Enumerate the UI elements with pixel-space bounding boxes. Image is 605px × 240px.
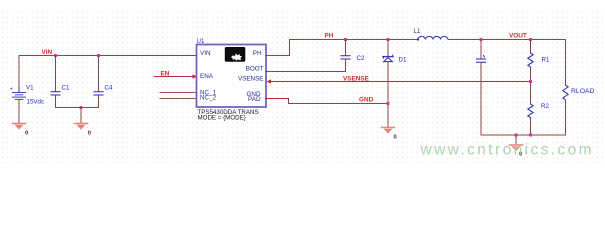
svg-text:VSENSE: VSENSE (343, 76, 370, 83)
label net VOUT (509, 33, 527, 40)
svg-text:www.cntronics.com: www.cntronics.com (420, 142, 594, 159)
capacitor C2 (341, 56, 350, 59)
svg-text:0: 0 (394, 135, 397, 141)
svg-text:L1: L1 (414, 28, 421, 35)
wire C2 lower lead (345, 60, 347, 72)
wire ground drop (input caps) (80, 108, 82, 124)
wire R2 lower lead (530, 118, 532, 136)
svg-text:VOUT: VOUT (509, 33, 527, 40)
ground 0 under V1 (13, 124, 26, 130)
node VIN junction C4 (97, 54, 100, 57)
wire PH top rail (290, 39, 419, 41)
pin label PH (253, 50, 262, 57)
pin label VSENSE (238, 76, 264, 83)
label L1 (414, 28, 421, 35)
wire GND step down (288, 99, 290, 104)
capacitor C3 (477, 56, 486, 63)
wire EN (154, 76, 194, 78)
label 0 (input caps ground) (88, 131, 91, 137)
node bottom rail ground junction (514, 134, 517, 137)
ground 0 (output) (510, 145, 523, 151)
svg-text:NC_2: NC_2 (200, 95, 217, 102)
wire output ground drop (515, 135, 517, 145)
wire R1 upper lead (530, 40, 532, 54)
wire VIN rail (19, 55, 197, 57)
label RLOAD (571, 88, 595, 95)
op-amp U1 box (TPS5430 regulator) (197, 45, 267, 108)
label net PH (325, 33, 334, 40)
label V1 (26, 85, 34, 92)
svg-text:PH: PH (253, 50, 262, 57)
label C4 (105, 85, 113, 92)
label R2 (541, 103, 549, 110)
pin label GND (247, 91, 261, 98)
label 0 (D1 ground) (394, 135, 397, 141)
node R1 top junction (529, 38, 532, 41)
node VIN junction C1 (54, 54, 57, 57)
node bottom rail R2 junction (529, 134, 532, 137)
resistor R2 (528, 104, 533, 118)
svg-text:ENA: ENA (200, 73, 214, 80)
node C2 top junction (344, 38, 347, 41)
voltage source V1 (10, 86, 26, 99)
label R1 (542, 56, 550, 63)
wire R1 lower lead (530, 67, 532, 104)
wire C4 branch bottom (98, 96, 100, 108)
wire C2 upper lead (345, 40, 347, 56)
wire right rail top (565, 40, 567, 86)
pin label VIN (200, 50, 211, 57)
svg-text:R2: R2 (541, 103, 549, 110)
resistor R1 (528, 53, 533, 67)
wire C3 lower lead (480, 63, 482, 135)
wire C4 branch top (98, 56, 100, 92)
node GND-D1 junction (386, 102, 389, 105)
svg-text:MODE = {MODE}: MODE = {MODE} (198, 114, 246, 121)
capacitor C1 (51, 92, 60, 95)
node VSENSE junction (529, 80, 532, 83)
svg-text:15Vdc: 15Vdc (27, 99, 45, 106)
wire C3 upper lead (480, 40, 482, 59)
label C2 (357, 55, 365, 62)
wire C1 branch bottom (55, 96, 57, 108)
pin label PAD (248, 96, 261, 103)
label 0 (V1 ground) (25, 131, 28, 137)
svg-text:VIN: VIN (200, 50, 211, 57)
label U1 (197, 38, 205, 45)
svg-text:GND: GND (359, 97, 374, 104)
svg-text:PH: PH (325, 33, 334, 40)
inductor L1 (417, 36, 448, 40)
label TPS5430DDA TRANS (198, 109, 259, 116)
wire D1 upper lead (387, 40, 389, 57)
svg-text:U1: U1 (197, 38, 205, 45)
label net GND (359, 97, 374, 104)
label net VSENSE (343, 76, 370, 83)
label net EN (161, 71, 170, 78)
wire VSENSE (270, 81, 531, 83)
label net VIN (42, 49, 53, 56)
pin label BOOT (246, 65, 264, 72)
pin label NC_2 (200, 95, 217, 102)
wire PH pin to riser (266, 55, 290, 57)
node bottom rail junction (79, 106, 82, 109)
TI logo (225, 47, 246, 62)
capacitor C4 (94, 92, 103, 95)
EN arrowhead (193, 74, 197, 78)
wire NC_2 stub (160, 98, 197, 100)
label 0 (output ground) (519, 151, 522, 157)
VSENSE arrowhead (267, 79, 271, 83)
svg-text:VSENSE: VSENSE (238, 76, 264, 83)
wire right rail bottom (565, 100, 567, 135)
wire BOOT (266, 71, 346, 73)
pin label ENA (200, 73, 214, 80)
wire PH riser (289, 40, 291, 56)
label MODE = {MODE} (198, 114, 246, 121)
svg-text:V1: V1 (26, 85, 34, 92)
svg-text:D1: D1 (399, 56, 407, 63)
wire top rail L1 to right (448, 39, 566, 41)
watermark www.cntronics.com (420, 142, 594, 159)
svg-text:+: + (10, 87, 13, 93)
node C3 top junction (479, 38, 482, 41)
svg-text:PAD: PAD (248, 96, 261, 103)
svg-text:C4: C4 (105, 85, 113, 92)
svg-text:VIN: VIN (42, 49, 53, 56)
wire input caps bottom rail (56, 107, 99, 109)
wire C1 branch top (55, 56, 57, 92)
pin label NC_1 (200, 89, 217, 96)
svg-text:C2: C2 (357, 55, 365, 62)
svg-text:R1: R1 (542, 56, 550, 63)
svg-text:0: 0 (88, 131, 91, 137)
ground 0 under input caps (75, 124, 88, 130)
wire GND pin stub (266, 98, 289, 100)
svg-text:BOOT: BOOT (246, 65, 264, 72)
node D1 top junction (386, 38, 389, 41)
diode D1 (schottky) (383, 55, 393, 61)
label C1 (62, 85, 70, 92)
svg-text:C1: C1 (62, 85, 70, 92)
wire NC_1 stub (160, 92, 197, 94)
wire output bottom rail (481, 134, 566, 136)
resistor RLOAD (563, 85, 568, 100)
ground 0 under D1 (382, 128, 395, 134)
label 15Vdc (27, 99, 45, 106)
label D1 (399, 56, 407, 63)
svg-text:0: 0 (25, 131, 28, 137)
wire V1 bottom lead (18, 100, 20, 124)
wire D1 lower lead (387, 62, 389, 128)
svg-text:RLOAD: RLOAD (571, 88, 595, 95)
wire V1 top lead (18, 56, 20, 93)
wire GND net (289, 103, 389, 105)
